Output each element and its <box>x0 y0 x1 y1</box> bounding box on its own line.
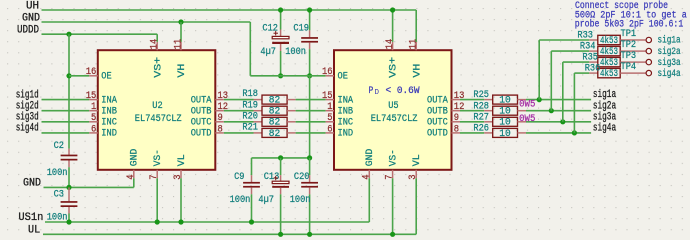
svg-text:IND: IND <box>101 129 117 140</box>
svg-text:10: 10 <box>499 96 511 107</box>
svg-text:0W5: 0W5 <box>519 99 535 111</box>
svg-text:OUTA: OUTA <box>191 95 212 106</box>
junction tap sig3a <box>560 119 565 124</box>
svg-text:4: 4 <box>126 175 137 180</box>
wire tap to R36 <box>574 72 589 74</box>
svg-text:6: 6 <box>91 124 96 135</box>
svg-text:C3: C3 <box>54 190 64 201</box>
svg-text:C9: C9 <box>234 172 244 183</box>
svg-text:GND: GND <box>365 149 376 167</box>
junction tap sig2a <box>549 108 554 113</box>
junction C20 on UL <box>307 232 312 237</box>
test point TP1 <box>620 39 646 41</box>
svg-text:sig4a: sig4a <box>593 123 616 135</box>
junction U5 VS- on UL <box>390 232 395 237</box>
wire tap to R34 <box>551 50 589 52</box>
svg-text:1: 1 <box>91 102 96 113</box>
wire U5 GND drop to US1n <box>368 178 370 222</box>
wire R21 to U5 IND <box>296 132 326 134</box>
svg-text:16: 16 <box>86 67 97 78</box>
svg-text:11: 11 <box>409 39 420 50</box>
junction rail C20 column <box>307 155 312 160</box>
svg-text:6: 6 <box>327 124 332 135</box>
pin 14 VS+ U5 <box>392 42 394 50</box>
pin 8 OUTD U2 <box>215 132 224 134</box>
resistor R35 4k53 <box>589 61 598 63</box>
pin 5 INC U2 <box>89 121 98 123</box>
wire R19 to U5 INB <box>296 110 326 112</box>
svg-text:TP2: TP2 <box>621 40 637 51</box>
svg-text:8: 8 <box>218 124 223 135</box>
svg-text:14: 14 <box>385 39 396 50</box>
svg-text:7: 7 <box>385 175 396 180</box>
wire R26 to sig4a <box>526 132 591 134</box>
svg-text:15: 15 <box>322 91 333 102</box>
svg-text:10: 10 <box>499 118 511 129</box>
wire C2 to GND wire <box>68 167 70 187</box>
wire GND corner drop at x250 <box>249 22 251 76</box>
svg-text:VL: VL <box>412 154 423 166</box>
pin 15 INA U2 <box>89 99 98 101</box>
wire R18 to U5 INA <box>296 99 326 101</box>
svg-text:sig4d: sig4d <box>16 123 39 135</box>
wire UH rail <box>42 9 417 11</box>
pin 4 GND U5 <box>368 170 370 179</box>
svg-text:3: 3 <box>408 175 419 180</box>
svg-text:10: 10 <box>499 107 511 118</box>
op-amp U5 EL7457CLZ body <box>334 50 452 170</box>
svg-text:82: 82 <box>269 96 281 107</box>
svg-text:INC: INC <box>101 118 117 129</box>
test point TP3 <box>620 61 646 63</box>
wire UL rail <box>43 233 416 235</box>
pin 1 INB U2 <box>89 110 98 112</box>
wire capacitor rail <box>252 157 310 159</box>
svg-text:D: D <box>375 89 380 97</box>
svg-text:4: 4 <box>361 175 372 180</box>
svg-text:EL7457CLZ: EL7457CLZ <box>135 114 182 125</box>
pin 8 OUTD U5 <box>452 132 461 134</box>
junction C12 bottom on OE/GND wire <box>278 73 283 78</box>
resistor R26 10 <box>484 132 493 134</box>
svg-text:R26: R26 <box>473 124 489 135</box>
wire U2 OUTD to R21 <box>224 132 254 134</box>
svg-text:EL7457CLZ: EL7457CLZ <box>371 114 418 125</box>
svg-text:4k53: 4k53 <box>600 46 618 58</box>
junction rail C13 <box>278 155 283 160</box>
junction UDDD column <box>66 32 71 37</box>
junction GND at U2 VH <box>178 19 183 24</box>
wire UH corner to U5 VH <box>415 10 417 42</box>
wire US1n rail <box>45 221 369 223</box>
pin 16 OE U2 <box>89 75 98 77</box>
svg-text:14: 14 <box>150 39 161 50</box>
wire GND to U2 VH <box>180 22 182 42</box>
svg-text:VH: VH <box>177 64 188 78</box>
svg-text:U2: U2 <box>152 101 162 112</box>
pin 16 OE U5 <box>326 75 334 77</box>
pin 13 OUTA U5 <box>452 99 461 101</box>
wire U5 OUTD to R26 <box>460 132 484 134</box>
pin 3 VL U5 <box>415 170 417 179</box>
resistor R28 10 <box>484 110 493 112</box>
svg-text:C2: C2 <box>54 141 64 152</box>
svg-text:OUTB: OUTB <box>191 107 212 118</box>
wire tap sig4a up <box>573 73 575 133</box>
svg-text:GND: GND <box>23 178 41 190</box>
svg-text:UDDD: UDDD <box>17 25 39 37</box>
junction C13 on UL <box>278 232 283 237</box>
pin 7 VS- U5 <box>392 170 394 179</box>
wire sig3d <box>42 121 90 123</box>
svg-text:4k53: 4k53 <box>600 68 618 80</box>
junction C19 bottom on OE/GND wire <box>307 73 312 78</box>
svg-text:U5: U5 <box>388 101 398 112</box>
svg-text:R25: R25 <box>473 90 489 101</box>
svg-text:16: 16 <box>322 67 333 78</box>
resistor R27 10 <box>484 121 493 123</box>
wire UDDD rail <box>42 33 158 35</box>
wire U5 VS- drop to UL <box>392 178 394 234</box>
junction tap sig1a <box>537 97 542 102</box>
svg-text:82: 82 <box>269 107 281 118</box>
svg-text:OUTC: OUTC <box>191 118 212 129</box>
wire R25 to sig1a <box>526 99 591 101</box>
svg-text:R33: R33 <box>577 31 593 42</box>
svg-text:R18: R18 <box>242 89 258 100</box>
svg-text:4µ7: 4µ7 <box>258 195 274 206</box>
wire UDDD corner to U2 VS+ <box>156 34 158 42</box>
junction C3 on US1n <box>66 219 71 224</box>
svg-text:UL: UL <box>28 225 40 237</box>
junction U2 VS- on US1n <box>155 219 160 224</box>
svg-text:INC: INC <box>338 118 354 129</box>
svg-text:OUTD: OUTD <box>427 129 448 140</box>
pin 3 VL U2 <box>180 170 182 179</box>
junction tap sig4a <box>572 130 577 135</box>
svg-text:VL: VL <box>177 154 188 166</box>
svg-text:100n: 100n <box>290 195 311 206</box>
wire U2 VL drop <box>180 178 182 222</box>
wire R20 to U5 INC <box>296 121 326 123</box>
svg-text:INB: INB <box>338 107 354 118</box>
svg-text:TP3: TP3 <box>621 51 637 62</box>
svg-text:IND: IND <box>338 129 354 140</box>
svg-text:100n: 100n <box>47 168 68 179</box>
svg-text:4k53: 4k53 <box>600 57 618 69</box>
svg-text:R20: R20 <box>242 111 258 122</box>
svg-text:sig4a: sig4a <box>658 68 681 80</box>
wire sig2d <box>42 110 90 112</box>
wire U5 VL drop to UL end <box>415 178 417 234</box>
pin 5 INC U5 <box>326 121 334 123</box>
pin 6 IND U2 <box>89 132 98 134</box>
wire tap sig1a up <box>538 40 540 100</box>
svg-text:5: 5 <box>327 113 332 124</box>
svg-text:OE: OE <box>338 72 348 83</box>
junction C9 on US1n <box>249 219 254 224</box>
pin 9 OUTC U5 <box>452 121 461 123</box>
svg-text:1: 1 <box>327 102 332 113</box>
svg-text:82: 82 <box>269 118 281 129</box>
svg-text:7: 7 <box>149 175 160 180</box>
junction U5 VS+ on UH <box>390 7 395 12</box>
svg-text:100n: 100n <box>230 195 251 206</box>
svg-text:INB: INB <box>101 107 117 118</box>
wire U2 VS- drop <box>156 178 158 222</box>
resistor R20 82 <box>254 121 263 123</box>
wire tap sig3a up <box>562 62 564 122</box>
junction C12 top on UH <box>278 7 283 12</box>
svg-text:8: 8 <box>454 124 459 135</box>
junction U2 OE tap <box>66 73 71 78</box>
svg-text:VH: VH <box>412 64 423 78</box>
svg-text:OUTA: OUTA <box>427 95 448 106</box>
svg-text:9: 9 <box>454 113 459 124</box>
svg-text:sig2a: sig2a <box>658 46 681 58</box>
svg-text:R34: R34 <box>580 42 596 53</box>
svg-text:P: P <box>369 86 374 97</box>
pin 12 OUTB U2 <box>215 110 224 112</box>
svg-text:GND: GND <box>130 149 141 167</box>
pin 12 OUTB U5 <box>452 110 461 112</box>
test point TP4 <box>620 72 646 74</box>
wire GND to U2 pin4 <box>44 186 134 188</box>
svg-text:INA: INA <box>101 95 117 106</box>
test point TP2 <box>620 50 646 52</box>
svg-text:OE: OE <box>101 72 111 83</box>
svg-text:INA: INA <box>338 95 354 106</box>
svg-text:VS-: VS- <box>153 149 164 166</box>
pin 13 OUTA U2 <box>215 99 224 101</box>
wire tap to R33 <box>539 39 589 41</box>
svg-text:5: 5 <box>91 113 96 124</box>
resistor R36 4k53 <box>589 72 598 74</box>
wire R27 to sig3a <box>526 121 591 123</box>
wire U2 OUTA to R18 <box>224 99 254 101</box>
svg-text:3: 3 <box>173 175 184 180</box>
svg-text:probe 5k03 2pF 100.6:1: probe 5k03 2pF 100.6:1 <box>575 19 684 31</box>
pin 15 INA U5 <box>326 99 334 101</box>
svg-text:OUTD: OUTD <box>191 129 212 140</box>
wire tap sig2a up <box>550 51 552 111</box>
junction C19 top on UH <box>307 7 312 12</box>
wire sig1d <box>42 99 90 101</box>
svg-text:R27: R27 <box>473 112 489 123</box>
op-amp U2 EL7457CLZ body <box>98 50 216 170</box>
svg-text:R21: R21 <box>242 123 258 134</box>
pin 4 GND U2 <box>133 170 135 179</box>
svg-text:10: 10 <box>499 129 511 140</box>
svg-text:R28: R28 <box>473 101 489 112</box>
wire U5 OUTB to R28 <box>460 110 484 112</box>
resistor R21 82 <box>254 132 263 134</box>
svg-text:0W5: 0W5 <box>519 113 535 125</box>
junction U2 VL on US1n <box>178 219 183 224</box>
wire GND rail <box>42 21 251 23</box>
wire sig4d <box>42 132 90 134</box>
svg-text:< 0.6W: < 0.6W <box>386 86 420 97</box>
wire U5 OUTC to R27 <box>460 121 484 123</box>
svg-text:OUTC: OUTC <box>427 118 448 129</box>
svg-text:sig1a: sig1a <box>658 35 681 47</box>
resistor R19 82 <box>254 110 263 112</box>
pin 11 VH U5 <box>415 42 417 50</box>
svg-text:VS+: VS+ <box>389 57 400 78</box>
wire U5 OUTA to R25 <box>460 99 484 101</box>
svg-text:100n: 100n <box>285 47 306 58</box>
svg-text:US1n: US1n <box>18 212 43 224</box>
wire U2 OUTB to R19 <box>224 110 254 112</box>
wire tap to R35 <box>563 61 590 63</box>
pin 11 VH U2 <box>180 42 182 50</box>
pin 14 VS+ U2 <box>156 42 158 50</box>
resistor R34 4k53 <box>589 50 598 52</box>
svg-text:sig3a: sig3a <box>658 57 681 69</box>
svg-text:VS-: VS- <box>389 149 400 166</box>
svg-text:C19: C19 <box>293 23 309 34</box>
svg-text:R35: R35 <box>582 53 598 64</box>
resistor R18 82 <box>254 99 263 101</box>
wire U2 OUTC to R20 <box>224 121 254 123</box>
wire GND column down to cap rail <box>309 76 311 158</box>
pin 6 IND U5 <box>326 132 334 134</box>
junction C2/C3 on GND wire <box>66 185 71 190</box>
svg-text:UH: UH <box>26 0 39 12</box>
resistor R25 10 <box>484 99 493 101</box>
wire GND/OE feed to U5 <box>250 75 325 77</box>
wire U2 pin4 drop <box>133 178 135 187</box>
pin 7 VS- U2 <box>156 170 158 179</box>
svg-text:11: 11 <box>173 39 184 50</box>
wire U2 OE <box>69 75 89 77</box>
svg-text:OUTB: OUTB <box>427 107 448 118</box>
svg-text:R19: R19 <box>242 100 258 111</box>
svg-text:GND: GND <box>22 12 40 24</box>
svg-text:TP4: TP4 <box>621 62 637 73</box>
wire R28 to sig2a <box>526 110 591 112</box>
svg-text:VS+: VS+ <box>153 57 164 78</box>
svg-text:9: 9 <box>218 113 223 124</box>
svg-text:4k53: 4k53 <box>600 35 618 47</box>
svg-text:15: 15 <box>86 91 97 102</box>
svg-text:82: 82 <box>269 129 281 140</box>
svg-text:R36: R36 <box>585 64 601 75</box>
svg-text:4µ7: 4µ7 <box>260 47 276 58</box>
svg-text:C20: C20 <box>294 172 310 183</box>
text note scope probe <box>575 0 687 30</box>
resistor R33 4k53 <box>589 39 598 41</box>
wire UDDD drop to OE and C2 <box>68 34 70 148</box>
pin 9 OUTC U2 <box>215 121 224 123</box>
wire U5 VS+ from UH <box>392 10 394 42</box>
pin 1 INB U5 <box>326 110 334 112</box>
